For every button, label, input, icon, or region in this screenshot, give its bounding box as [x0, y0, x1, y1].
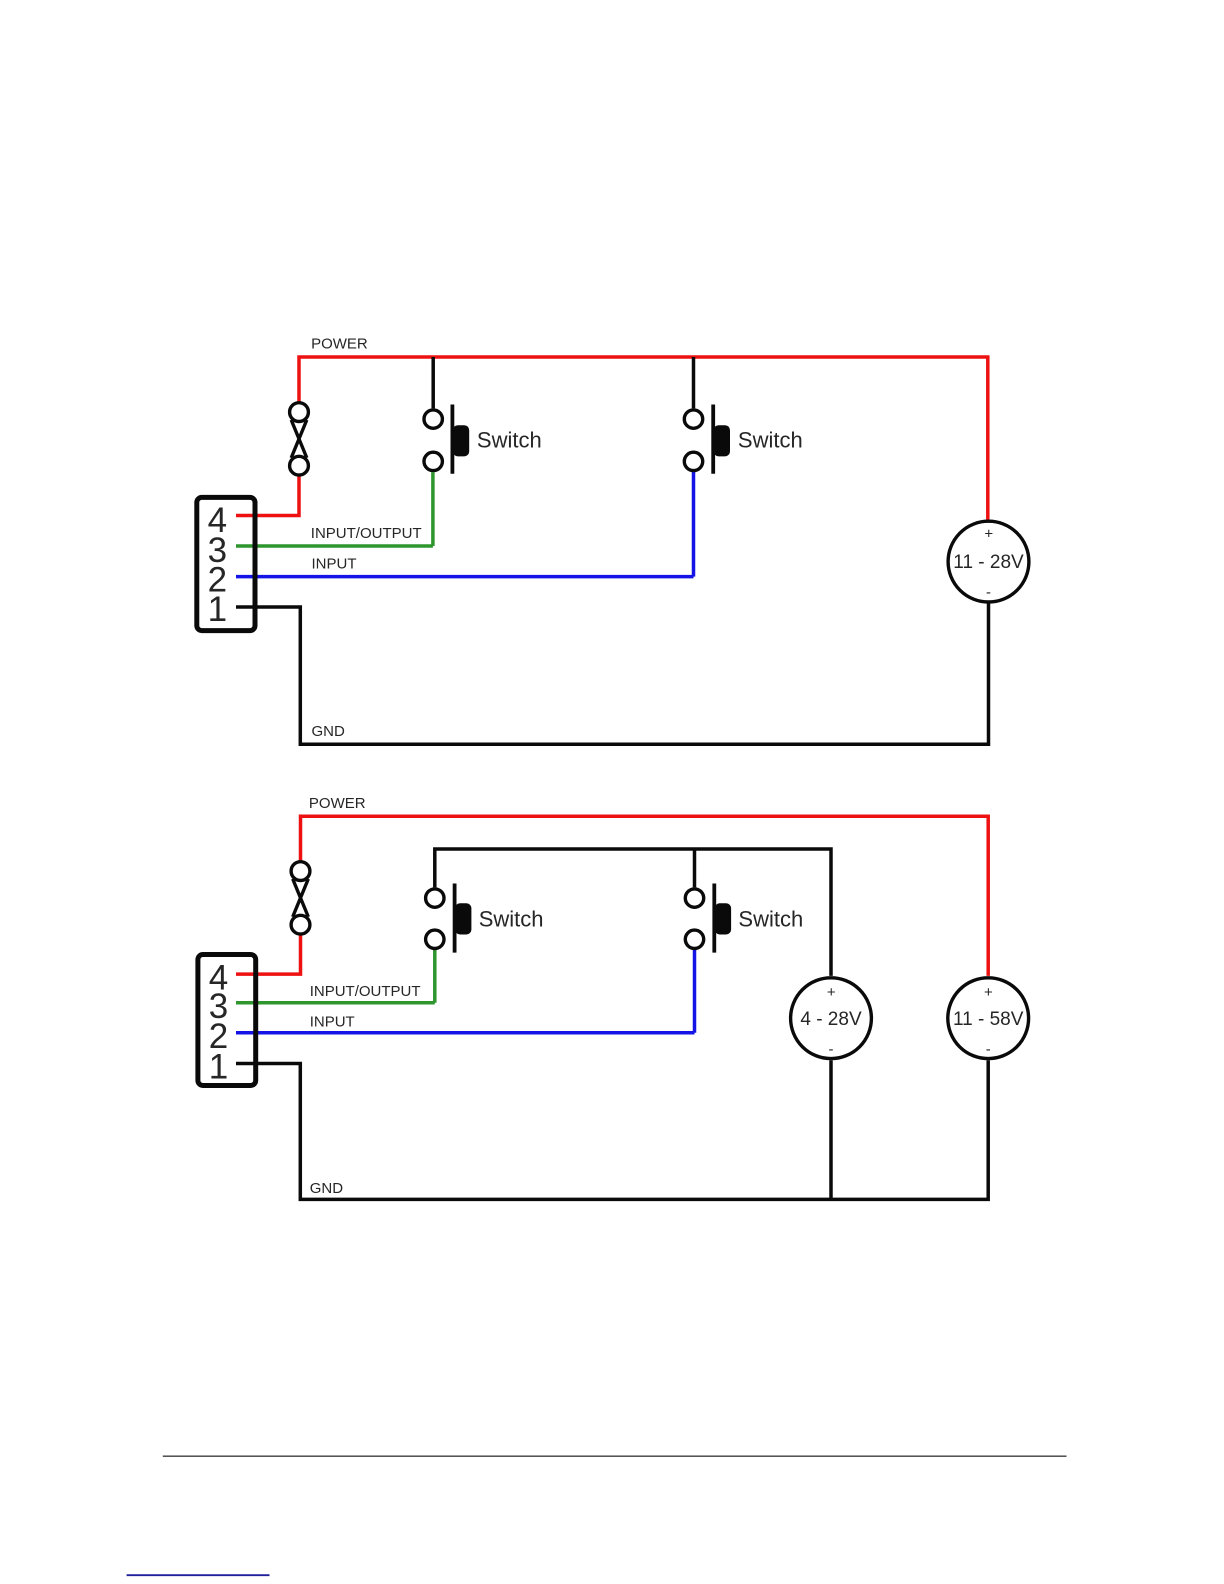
- svg-text:GND: GND: [312, 723, 346, 740]
- svg-text:Switch: Switch: [738, 906, 803, 931]
- svg-text:INPUT: INPUT: [312, 556, 357, 573]
- svg-text:+: +: [984, 525, 993, 542]
- svg-text:-: -: [986, 1041, 991, 1058]
- svg-text:11 - 28V: 11 - 28V: [953, 552, 1024, 573]
- svg-text:POWER: POWER: [311, 335, 368, 352]
- svg-text:11 - 58V: 11 - 58V: [953, 1009, 1024, 1030]
- svg-text:-: -: [986, 584, 991, 601]
- svg-text:INPUT: INPUT: [310, 1013, 355, 1030]
- svg-text:INPUT/OUTPUT: INPUT/OUTPUT: [310, 983, 421, 1000]
- svg-text:Switch: Switch: [479, 906, 544, 931]
- svg-text:POWER: POWER: [309, 795, 366, 812]
- svg-text:+: +: [827, 984, 836, 1001]
- svg-text:-: -: [829, 1041, 834, 1058]
- svg-text:4 - 28V: 4 - 28V: [800, 1009, 862, 1030]
- svg-text:1: 1: [208, 590, 227, 629]
- svg-text:1: 1: [209, 1048, 228, 1087]
- svg-text:Switch: Switch: [738, 428, 803, 453]
- svg-text:INPUT/OUTPUT: INPUT/OUTPUT: [311, 525, 422, 542]
- svg-text:GND: GND: [310, 1180, 344, 1197]
- svg-text:+: +: [984, 984, 993, 1001]
- svg-text:Switch: Switch: [477, 428, 542, 453]
